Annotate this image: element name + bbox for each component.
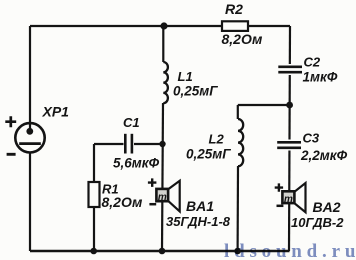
svg-text:2,2мкФ: 2,2мкФ — [300, 148, 348, 163]
svg-text:C1: C1 — [123, 115, 140, 130]
minus XP1 — [7, 153, 16, 156]
svg-text:m: m — [284, 194, 293, 205]
capacitor C3 — [277, 140, 301, 151]
svg-text:8,2Ом: 8,2Ом — [102, 194, 144, 210]
wire: middle branch lower (L1 to bottom bus) — [162, 103, 163, 251]
node B junction dot — [286, 102, 293, 109]
inductor L1 — [163, 62, 168, 103]
junction dot C1-to-BA1 branch — [159, 141, 165, 147]
svg-text:m: m — [158, 192, 167, 203]
plus BA1 — [148, 178, 157, 187]
wire: middle branch upper (top bus to L1) — [162, 26, 164, 62]
minus BA1 — [149, 203, 156, 206]
speaker BA1 — [156, 181, 179, 212]
plug XP1 — [15, 123, 44, 153]
speaker BA2 — [282, 183, 305, 212]
wire: right rail (C2 C3 BA2 vertical) — [289, 26, 290, 251]
svg-text:C2: C2 — [304, 55, 321, 70]
wire: R1 branch vertical — [93, 144, 95, 251]
svg-text:35ГДН-1-8: 35ГДН-1-8 — [166, 214, 231, 229]
wire: C1 horizontal — [94, 143, 163, 145]
capacitor C1 — [124, 134, 135, 154]
wire: L2 branch upper (node B wire down to coil) — [237, 105, 239, 119]
svg-text:BA1: BA1 — [186, 198, 214, 214]
resistor R1 — [89, 182, 100, 207]
inductor L2 — [238, 119, 243, 166]
wire: left rail — [29, 26, 31, 251]
wire: L2 branch lower (coil to bottom bus) — [237, 166, 240, 251]
svg-text:BA2: BA2 — [313, 199, 341, 215]
minus BA2 — [277, 205, 284, 208]
plus BA2 — [275, 183, 283, 191]
wire: bottom bus — [30, 250, 290, 252]
svg-text:L2: L2 — [209, 132, 225, 147]
bottom bus junction dots — [90, 248, 97, 255]
wire: node B horizontal to L2 — [238, 104, 290, 106]
resistor R2 — [222, 21, 248, 31]
node A junction dot (L1 tap on top bus) — [160, 22, 167, 29]
plus XP1 — [5, 116, 16, 127]
svg-text:XP1: XP1 — [42, 104, 70, 120]
svg-text:R2: R2 — [225, 1, 243, 17]
svg-text:L1: L1 — [178, 69, 193, 84]
svg-text:ldsound.ru: ldsound.ru — [224, 241, 356, 260]
svg-text:0,25мГ: 0,25мГ — [173, 84, 218, 99]
svg-text:1мкФ: 1мкФ — [303, 70, 338, 85]
capacitor C2 — [278, 64, 302, 75]
svg-text:10ГДВ-2: 10ГДВ-2 — [291, 215, 344, 230]
wire: top bus from left rail to right rail — [30, 25, 290, 27]
svg-text:0,25мГ: 0,25мГ — [186, 147, 231, 162]
svg-text:5,6мкФ: 5,6мкФ — [113, 156, 160, 171]
svg-text:C3: C3 — [303, 131, 320, 146]
svg-text:8,2Ом: 8,2Ом — [222, 31, 264, 47]
